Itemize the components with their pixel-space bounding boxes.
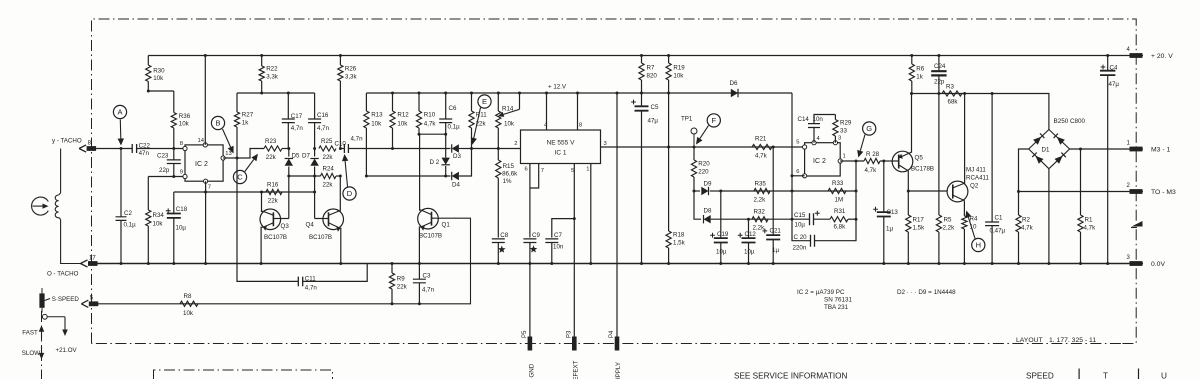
svg-text:0,1µ: 0,1µ — [124, 222, 137, 229]
pin 4 — [812, 141, 816, 145]
svg-text:R7: R7 — [647, 65, 655, 72]
pin 8 — [183, 146, 187, 150]
svg-text:IC 2: IC 2 — [813, 158, 826, 165]
svg-text:0,1µ: 0,1µ — [448, 124, 461, 131]
wire: 0.0V rail — [96, 263, 1143, 265]
svg-text:1µ: 1µ — [886, 226, 893, 233]
svg-text:TP1: TP1 — [681, 116, 693, 123]
resistor R6 1k — [910, 54, 913, 57]
terminal 5 S-SPEED — [89, 301, 99, 306]
svg-text:4,7n: 4,7n — [422, 287, 435, 294]
svg-text:F: F — [712, 116, 717, 125]
svg-text:SLOW: SLOW — [22, 350, 40, 357]
transistor Q1 BC107B — [418, 208, 439, 229]
svg-text:C23: C23 — [157, 153, 169, 160]
svg-text:0,47µ: 0,47µ — [990, 228, 1006, 235]
svg-text:D8: D8 — [704, 208, 712, 215]
svg-text:MJ 411: MJ 411 — [966, 167, 986, 174]
svg-text:R33: R33 — [832, 180, 844, 187]
wire: pin 7 to 0V — [205, 181, 207, 263]
circled A — [113, 105, 126, 118]
svg-text:C16: C16 — [317, 112, 329, 119]
svg-text:47µ: 47µ — [1109, 81, 1120, 88]
wire: pin1/R26 row — [840, 160, 864, 162]
capacitor C22 47n — [132, 144, 136, 153]
svg-text:R22: R22 — [266, 66, 278, 73]
svg-text:R4: R4 — [970, 216, 978, 223]
wire: pin 8 riser — [577, 93, 579, 130]
circled H — [972, 238, 985, 251]
resistor R28 4,7k — [864, 158, 880, 163]
svg-text:H: H — [976, 241, 981, 250]
svg-text:D: D — [347, 189, 353, 198]
op-amp IC2 first — [185, 145, 223, 181]
capacitor C8 — [492, 239, 505, 243]
svg-text:4,7n: 4,7n — [317, 125, 330, 132]
wire: pin 1 to 0V — [590, 164, 592, 264]
svg-text:FAST: FAST — [22, 330, 38, 337]
capacitor C2 0,1u — [120, 149, 122, 217]
svg-text:B250 C800: B250 C800 — [1054, 118, 1086, 125]
resistor R16 22k — [262, 191, 267, 193]
svg-text:3,3k: 3,3k — [266, 73, 279, 80]
diode D7 — [314, 149, 316, 157]
svg-text:D2 · · · D9 = 1N4448: D2 · · · D9 = 1N4448 — [897, 289, 956, 296]
transistor Q4 BC107B — [323, 209, 344, 230]
wire: input row to IC2 pin 8 — [96, 148, 132, 150]
wire: +12V row — [366, 92, 792, 94]
svg-text:R13: R13 — [371, 112, 383, 119]
resistor R13 10k — [365, 93, 367, 111]
svg-text:C24: C24 — [934, 63, 946, 70]
capacitor C1 0,47u — [991, 92, 994, 95]
terminal P5 GND — [528, 337, 533, 351]
resistor R35 2,2k — [754, 188, 770, 193]
wire: R35/R33 row — [754, 190, 856, 192]
svg-text:C7: C7 — [554, 232, 562, 239]
svg-text:+ 20. V: + 20. V — [1151, 53, 1173, 60]
circled F — [707, 114, 720, 127]
resistor R29 33 — [834, 115, 836, 120]
svg-text:C8: C8 — [500, 232, 508, 239]
svg-text:10k: 10k — [504, 121, 515, 128]
transistor Q5 BC178B — [892, 151, 913, 172]
capacitor C10 4,7n — [340, 148, 344, 150]
svg-text:D3: D3 — [453, 153, 461, 160]
svg-text:S·SPEED: S·SPEED — [52, 296, 80, 303]
svg-text:10k: 10k — [371, 120, 382, 127]
wire: pin 13 output row — [223, 149, 264, 159]
svg-text:LAYOUT: LAYOUT — [1016, 337, 1043, 344]
lower dashed box — [154, 370, 333, 379]
svg-text:1µ: 1µ — [772, 247, 779, 254]
resistor R18 1,5k — [667, 146, 670, 149]
svg-text:3: 3 — [604, 141, 607, 147]
wire: tacho to O-TACHO terminal — [61, 219, 82, 263]
wire: Q5 collector row to Q2 base — [908, 190, 947, 192]
resistor R34 10k — [147, 177, 149, 211]
resistor R32 2,2k — [752, 217, 768, 222]
svg-text:17: 17 — [89, 255, 96, 261]
svg-text:10k: 10k — [179, 121, 190, 128]
svg-text:2,2k: 2,2k — [753, 225, 766, 232]
wire to +21.0V — [47, 316, 65, 318]
trimmer R14 10k — [497, 93, 499, 111]
circled B — [211, 116, 224, 129]
FAST arrow — [41, 332, 43, 339]
svg-text:R11: R11 — [476, 112, 487, 119]
resistor R3 68k — [942, 91, 962, 96]
svg-text:IC 2: IC 2 — [195, 161, 208, 168]
svg-text:10n: 10n — [813, 116, 824, 123]
wire: row93 left segment — [237, 92, 315, 94]
diode D4 — [452, 172, 459, 180]
svg-text:7: 7 — [208, 185, 211, 191]
svg-text:O - TACHO: O - TACHO — [47, 271, 79, 278]
resistor R36 10k — [173, 91, 175, 113]
svg-text:P3: P3 — [566, 330, 572, 338]
node: pot lower terminal — [42, 314, 47, 319]
svg-text:C4: C4 — [1110, 65, 1118, 72]
svg-text:C13: C13 — [887, 209, 899, 216]
svg-text:C12: C12 — [745, 231, 757, 238]
svg-text:22k: 22k — [268, 197, 279, 204]
wire: row93 right segment — [912, 94, 1049, 130]
capacitor C18 10u — [173, 192, 175, 214]
svg-text:68k: 68k — [948, 99, 959, 106]
svg-text:C9: C9 — [532, 232, 540, 239]
svg-text:R29: R29 — [840, 120, 852, 127]
svg-text:22p: 22p — [159, 167, 170, 174]
capacitor C24 22p — [937, 54, 940, 57]
capacitor C12 10u — [747, 218, 750, 221]
wire: S-SPEED line to Q1 base — [98, 218, 471, 304]
svg-text:10k: 10k — [153, 75, 164, 82]
svg-text:C5: C5 — [651, 104, 659, 111]
wire: pin 3 output — [601, 146, 669, 148]
capacitor C19 10u — [720, 191, 722, 238]
svg-text:R31: R31 — [834, 208, 846, 215]
resistor R9 22k (below rail) — [391, 262, 394, 265]
resistor R22 3,3k — [260, 54, 263, 57]
terminal 8 y-TACHO — [87, 146, 97, 151]
svg-text:R18: R18 — [673, 232, 685, 239]
wire: D9 row to R35 — [721, 190, 754, 192]
svg-text:C6: C6 — [449, 105, 457, 112]
capacitor C11 4,7n — [298, 277, 302, 287]
svg-text:6,8k: 6,8k — [834, 224, 847, 231]
diode D9 — [694, 190, 700, 192]
pin 14 — [203, 143, 207, 147]
terminal P4 SUPPLY — [615, 337, 620, 351]
node A — [120, 147, 123, 150]
pin 1 — [838, 159, 842, 163]
svg-text:Q3: Q3 — [281, 223, 290, 230]
svg-text:M3 - 1: M3 - 1 — [1151, 146, 1170, 153]
svg-text:R27: R27 — [242, 112, 254, 119]
pin 7 — [204, 179, 208, 183]
resistor R4 10 — [962, 216, 967, 229]
svg-text:4,7k: 4,7k — [755, 153, 768, 160]
wire: R24 row — [289, 175, 321, 177]
svg-text:R6: R6 — [916, 66, 924, 73]
svg-text:1: 1 — [586, 167, 589, 173]
svg-text:7: 7 — [541, 168, 544, 174]
svg-text:33: 33 — [840, 128, 847, 135]
capacitor C6 0,1u — [445, 93, 447, 119]
svg-text:10k: 10k — [673, 73, 684, 80]
svg-text:10µ: 10µ — [176, 225, 187, 232]
svg-text:R23: R23 — [265, 138, 277, 145]
svg-text:47n: 47n — [139, 150, 150, 157]
terminal 1 M3-1 — [1130, 147, 1143, 152]
wire: pin 5 to REFEXT — [573, 164, 575, 337]
svg-text:BC107B: BC107B — [309, 234, 332, 241]
svg-text:C10: C10 — [335, 141, 347, 148]
diode D6 — [731, 89, 738, 97]
svg-text:BC178B: BC178B — [911, 166, 934, 173]
svg-text:R1: R1 — [1085, 217, 1093, 224]
transistor Q3 BC107B — [260, 209, 281, 230]
resistor R1 4,7k — [1079, 148, 1082, 151]
svg-text:P4: P4 — [609, 330, 615, 338]
wire: pin13 node to C11 — [237, 158, 298, 281]
svg-text:13: 13 — [225, 151, 231, 157]
svg-text:10k: 10k — [183, 310, 194, 317]
svg-text:R20: R20 — [698, 161, 710, 168]
svg-text:R12: R12 — [397, 112, 409, 119]
capacitor C3 4,7n (below rail) — [418, 264, 420, 280]
wire: pin 4 riser — [546, 93, 548, 130]
diode D8 — [694, 191, 701, 219]
svg-text:SPEED: SPEED — [1026, 372, 1054, 379]
svg-text:C19: C19 — [717, 231, 729, 238]
svg-text:R24: R24 — [323, 166, 335, 173]
svg-text:C2: C2 — [124, 210, 132, 217]
svg-text:5: 5 — [796, 140, 799, 146]
circled G — [863, 122, 876, 135]
svg-text:C17: C17 — [291, 113, 303, 120]
svg-text:R9: R9 — [397, 276, 405, 283]
bridge diode arrows — [1033, 137, 1041, 145]
svg-text:22p: 22p — [934, 79, 945, 86]
resistor R10 4,7k — [418, 93, 420, 111]
svg-text:D7: D7 — [302, 153, 310, 160]
svg-text:10k: 10k — [153, 221, 164, 228]
capacitor C7 10n — [552, 219, 575, 238]
svg-text:1k: 1k — [916, 74, 923, 81]
svg-text:IC 1: IC 1 — [555, 150, 567, 157]
svg-text:SEE SERVICE INFORMATION: SEE SERVICE INFORMATION — [734, 372, 848, 379]
resistor R27 1k — [236, 93, 238, 112]
svg-text:2,2k: 2,2k — [754, 197, 767, 204]
svg-text:SN 76131: SN 76131 — [824, 297, 853, 304]
terminal 2 TO-M3 — [1130, 189, 1143, 194]
resistor R8 10k — [180, 301, 198, 306]
svg-text:A: A — [117, 108, 122, 117]
svg-text:BC107B: BC107B — [419, 233, 442, 240]
wire: row176 right (R13..D4) — [366, 175, 450, 177]
resistor R25 22k — [319, 146, 336, 151]
svg-text:NE 555 V: NE 555 V — [547, 140, 575, 147]
svg-text:U: U — [1161, 372, 1167, 379]
svg-text:10µ: 10µ — [795, 222, 806, 229]
svg-text:R 28: R 28 — [866, 151, 880, 158]
svg-text:R5: R5 — [944, 217, 952, 224]
chassis marker on border — [1132, 221, 1143, 227]
pin 3 — [833, 141, 837, 145]
svg-text:220n: 220n — [793, 245, 807, 252]
svg-text:R30: R30 — [153, 67, 165, 74]
diode D3 — [393, 148, 451, 150]
svg-text:D1: D1 — [1042, 147, 1050, 154]
svg-text:22k: 22k — [323, 154, 334, 161]
svg-text:47µ: 47µ — [648, 118, 659, 125]
svg-text:BC107B: BC107B — [264, 234, 287, 241]
wire: D8 row to C15 — [749, 218, 793, 220]
resistor R12 10k — [392, 93, 394, 111]
capacitor C15 10u — [810, 213, 814, 225]
resistor R31 6,8k — [814, 218, 831, 220]
wire: pin6/pin7 to C9 — [529, 164, 531, 238]
svg-text:1,5k: 1,5k — [913, 225, 926, 232]
svg-text:Q2: Q2 — [970, 183, 979, 190]
svg-text:10µ: 10µ — [744, 249, 755, 256]
resistor R24 22k — [321, 173, 337, 178]
svg-text:3: 3 — [838, 136, 841, 142]
svg-text:6: 6 — [525, 167, 528, 173]
circled C — [233, 170, 246, 183]
svg-text:10n: 10n — [553, 244, 564, 251]
svg-text:R10: R10 — [424, 112, 436, 119]
wire: trigger row to 555 pin 2 — [472, 148, 521, 150]
resistor R15 86,6k — [497, 149, 499, 161]
svg-text:1k: 1k — [242, 119, 249, 126]
wire: +20V rail — [148, 55, 1143, 57]
svg-text:0.0V: 0.0V — [1151, 261, 1165, 268]
diode D2 — [445, 134, 447, 157]
svg-text:Q1: Q1 — [442, 222, 451, 229]
svg-text:D5: D5 — [292, 153, 300, 160]
resistor R2 4,7k — [1016, 215, 1021, 232]
IC1 NE555 — [521, 130, 601, 164]
svg-text:10µ: 10µ — [716, 249, 727, 256]
svg-text:R35: R35 — [755, 181, 767, 188]
svg-text:R32: R32 — [754, 209, 766, 216]
wire: bridge bottom to 0V — [1048, 169, 1050, 264]
svg-text:IC 2 = µA739 PC: IC 2 = µA739 PC — [797, 289, 845, 296]
resistor R26 3,3k — [339, 54, 342, 57]
op-amp IC2 second — [805, 143, 841, 176]
tacho coil — [60, 149, 62, 194]
capacitor C21 1u — [772, 147, 774, 235]
svg-text:R36: R36 — [179, 113, 191, 120]
diode D5 — [288, 149, 290, 157]
resistor R5 2,2k — [938, 94, 940, 216]
wire: D6 line down to IC2 pin 6 — [791, 93, 793, 176]
resistor R19 10k — [667, 54, 670, 57]
wire: D8 row into C15 — [792, 218, 810, 220]
pin 13 — [221, 156, 225, 160]
terminal 3 0.0V — [1130, 261, 1143, 266]
svg-text:SUPPLY: SUPPLY — [615, 362, 622, 379]
svg-text:8: 8 — [180, 141, 183, 147]
svg-text:R34: R34 — [153, 212, 165, 219]
svg-text:D4: D4 — [452, 182, 460, 189]
svg-text:P5: P5 — [522, 330, 528, 338]
wire: TO-M3 line — [1019, 191, 1144, 193]
svg-text:T: T — [1103, 372, 1108, 379]
capacitor C4 47u — [1106, 54, 1109, 57]
resistor R23 22k — [264, 146, 282, 151]
svg-text:4,7k: 4,7k — [865, 167, 878, 174]
svg-text:22k: 22k — [323, 182, 334, 189]
svg-text:22k: 22k — [266, 154, 277, 161]
svg-text:R25: R25 — [321, 138, 333, 145]
svg-text:1,5k: 1,5k — [673, 240, 686, 247]
svg-text:Q5: Q5 — [915, 155, 924, 162]
resistor R11 22k — [471, 93, 473, 111]
svg-text:R16: R16 — [267, 182, 279, 189]
svg-text:D 2: D 2 — [430, 159, 440, 166]
svg-text:B: B — [215, 119, 220, 128]
wire: +20V to pin 14 — [204, 54, 207, 57]
svg-text:R3: R3 — [946, 84, 954, 91]
capacitor C9 — [523, 239, 536, 243]
wire: pin 9 row — [148, 176, 185, 178]
wire: pin 6 loop — [792, 175, 805, 177]
svg-text:4,7k: 4,7k — [1021, 225, 1034, 232]
svg-text:2: 2 — [514, 141, 517, 147]
svg-text:86,6k: 86,6k — [502, 171, 518, 178]
svg-text:R15: R15 — [503, 163, 515, 170]
circled D — [343, 187, 356, 200]
svg-text:Q4: Q4 — [306, 222, 315, 229]
svg-text:C18: C18 — [176, 206, 188, 213]
svg-text:C3: C3 — [423, 273, 431, 280]
resistor R21 4,7k — [752, 144, 772, 149]
svg-text:2,2k: 2,2k — [943, 225, 956, 232]
R14 wiper — [519, 93, 521, 109]
svg-text:820: 820 — [647, 73, 658, 80]
svg-text:22k: 22k — [397, 284, 408, 291]
svg-text:1. 177. 325 - 11: 1. 177. 325 - 11 — [1049, 337, 1096, 344]
pin 6 — [803, 174, 807, 178]
capacitor C5 47u — [640, 92, 643, 95]
resistor R20 220 — [693, 147, 695, 160]
capacitor C17 4,7n — [287, 92, 290, 95]
svg-text:REFEXT: REFEXT — [573, 360, 580, 379]
wire: bridge left to R2 — [1019, 149, 1029, 215]
svg-text:9: 9 — [180, 170, 183, 176]
svg-text:+ 12.V: + 12.V — [548, 84, 567, 91]
capacitor C23 22p — [173, 149, 175, 160]
svg-text:C1: C1 — [995, 215, 1003, 222]
resistor R17 1,5k — [907, 190, 910, 193]
svg-text:6: 6 — [796, 169, 799, 175]
pin 5 — [803, 145, 807, 149]
test point TP1 — [693, 134, 695, 147]
wire: F row to IC2 pin 5 — [669, 146, 805, 148]
svg-text:C: C — [237, 173, 243, 182]
svg-text:1M: 1M — [835, 197, 844, 204]
svg-text:D6: D6 — [730, 80, 738, 87]
node F junction — [693, 146, 696, 149]
svg-text:C15: C15 — [794, 212, 806, 219]
bridge rectifier D1 B250 C800 — [1029, 130, 1070, 169]
SLOW arrow — [41, 346, 43, 353]
svg-text:1: 1 — [843, 154, 846, 160]
